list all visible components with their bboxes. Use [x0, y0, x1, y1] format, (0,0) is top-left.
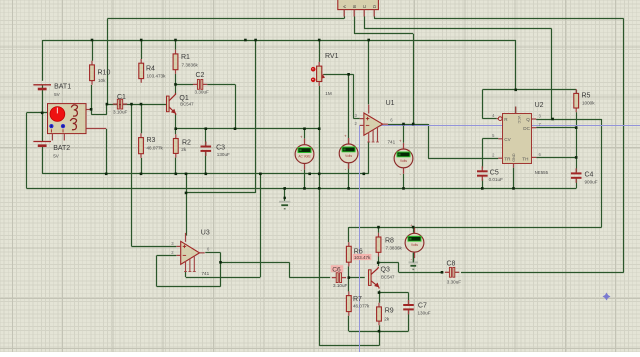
svg-text:C7: C7: [418, 303, 427, 310]
svg-text:C6: C6: [332, 266, 341, 273]
svg-text:0.01uF: 0.01uF: [489, 177, 503, 182]
svg-text:46.077k: 46.077k: [353, 304, 370, 309]
svg-text:Volts: Volts: [345, 154, 352, 158]
svg-text:7.3836k: 7.3836k: [182, 63, 199, 68]
svg-text:+: +: [410, 223, 413, 228]
svg-text:R7: R7: [353, 296, 362, 303]
svg-text:130uF: 130uF: [418, 310, 431, 315]
svg-text:2k: 2k: [181, 147, 187, 152]
svg-text:C1: C1: [117, 94, 126, 101]
svg-text:C4: C4: [585, 171, 594, 178]
svg-text:R1: R1: [181, 54, 190, 61]
svg-text:BC547: BC547: [381, 274, 395, 279]
svg-text:BC547: BC547: [180, 102, 194, 107]
svg-text:46.077k: 46.077k: [147, 146, 164, 151]
svg-text:741: 741: [202, 271, 210, 276]
svg-text:R3: R3: [147, 137, 156, 144]
svg-text:U3: U3: [201, 229, 210, 236]
svg-text:RV1: RV1: [325, 53, 339, 60]
svg-text:C3: C3: [216, 144, 225, 151]
svg-text:Q3: Q3: [381, 266, 390, 273]
svg-text:R9: R9: [385, 308, 394, 315]
svg-text:C2: C2: [196, 72, 205, 79]
svg-text:10k: 10k: [98, 78, 106, 83]
svg-text:VCC: VCC: [517, 116, 521, 124]
svg-text:Q: Q: [526, 117, 530, 122]
svg-text:Volts: Volts: [411, 243, 418, 247]
svg-text:+: +: [300, 134, 303, 139]
svg-text:2k: 2k: [384, 316, 390, 321]
svg-text:GND: GND: [512, 153, 516, 162]
svg-text:R5: R5: [582, 92, 591, 99]
svg-text:DC: DC: [523, 126, 530, 131]
svg-text:C8: C8: [447, 261, 456, 268]
svg-text:130uF: 130uF: [217, 152, 230, 157]
svg-text:3.30uF: 3.30uF: [447, 279, 461, 284]
svg-text:CV: CV: [504, 137, 511, 142]
svg-text:1M: 1M: [325, 91, 332, 96]
svg-text:R8: R8: [385, 238, 394, 245]
svg-text:7.3836k: 7.3836k: [386, 246, 403, 251]
svg-text:103.473k: 103.473k: [147, 74, 167, 79]
svg-text:NE555: NE555: [535, 170, 549, 175]
svg-text:3.10uF: 3.10uF: [113, 110, 127, 115]
svg-text:3.30uF: 3.30uF: [195, 89, 209, 94]
svg-text:BAT1: BAT1: [54, 83, 71, 90]
svg-text:1000k: 1000k: [582, 101, 595, 106]
svg-text:+: +: [344, 134, 347, 139]
svg-text:741: 741: [388, 140, 396, 145]
svg-text:900uF: 900uF: [585, 180, 598, 185]
svg-text:+: +: [399, 139, 402, 144]
svg-text:5V: 5V: [54, 92, 61, 97]
svg-text:R4: R4: [146, 65, 155, 72]
svg-text:U2: U2: [535, 102, 544, 109]
svg-text:TH: TH: [522, 156, 528, 161]
svg-text:BAT2: BAT2: [53, 145, 70, 152]
svg-text:TR: TR: [504, 156, 511, 161]
svg-text:R2: R2: [182, 139, 191, 146]
svg-text:R10: R10: [98, 70, 111, 77]
svg-text:C5: C5: [490, 170, 499, 177]
svg-text:3.10uF: 3.10uF: [333, 283, 347, 288]
svg-text:AC Volts: AC Volts: [298, 155, 311, 159]
svg-text:B: B: [352, 5, 357, 8]
svg-text:103.47k: 103.47k: [354, 255, 371, 260]
svg-text:5V: 5V: [53, 154, 60, 159]
svg-text:Volts: Volts: [400, 159, 407, 163]
svg-text:U1: U1: [386, 100, 395, 107]
